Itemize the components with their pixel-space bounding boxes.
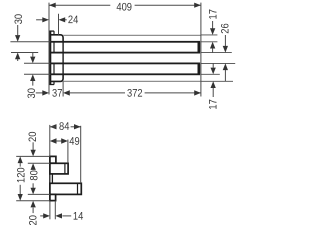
svg-text:20: 20 [27,132,39,142]
arrow 409 left [49,3,56,8]
dimension 24 tail + arrows [36,19,42,21]
arm 1 bar cross line [64,163,66,174]
svg-text:24: 24 [68,14,78,26]
dim 49 arrows [50,138,57,143]
arm 2 stub (side view) [50,183,81,194]
svg-text:17: 17 [207,9,219,19]
svg-text:84: 84 [59,121,69,133]
dimension 409 extension line left [48,3,50,95]
svg-text:17: 17 [207,99,219,109]
svg-text:30: 30 [13,14,25,24]
arrow 409 right [194,3,201,8]
wall plate (side view) [50,156,53,200]
dim 372 left arrow [63,90,70,95]
svg-text:26: 26 [219,23,231,33]
svg-text:20: 20 [27,215,39,225]
hub block upper (side view) [50,156,56,163]
svg-text:372: 372 [127,88,143,100]
dimension 24 extension line [58,14,60,35]
towel bar 1 end cap [198,42,200,53]
towel bar 1 (top view) [50,42,199,53]
arm 1 stub (side view) [50,163,68,174]
svg-text:49: 49 [69,136,79,148]
dim 37: extension line under hub [62,81,64,96]
hub right edge vertical crossing bars [62,42,64,75]
svg-text:120: 120 [15,167,27,183]
left horizontal extension lines (side view) [16,155,50,157]
grey silhouette line lower [63,80,201,82]
dim 120: arrows + rotated label [18,156,23,163]
dim 372 right arrow [194,90,201,95]
left dim 30 upper: line + arrows [17,25,19,35]
arm 2 bar cross line [77,183,79,194]
post edge visible inside bar 1 [53,42,55,53]
dim 14 extension lines [49,201,51,220]
pivot hub upper (top view, rounded top-right) [50,35,63,42]
extension lines left lower [24,62,50,64]
dim 84 extension lines [49,125,51,156]
pivot hub lower (top view, rounded bottom-right) [50,74,63,81]
svg-text:14: 14 [73,211,83,223]
dimension line 409 [49,4,110,6]
right chain shelves [201,34,218,36]
grey silhouette line upper [63,34,201,36]
svg-text:80: 80 [28,170,40,180]
towel bar 2 end cap [198,63,200,74]
dim 49 extension line [67,140,69,164]
svg-text:37: 37 [52,88,62,100]
towel bar 2 (top view) [50,63,199,74]
dim 20 bottom: arrows + rotated label [31,201,36,208]
right dim 17 bottom: arrows + text [212,63,214,67]
dim 37 arrows [36,92,43,94]
extension lines left upper [10,41,50,43]
dim 14 arrows + label [40,215,43,217]
hub block lower (side view) [50,194,56,200]
svg-text:409: 409 [116,1,132,13]
wall plate (top view): left edge, top/bottom caps, short right-edge bits [49,31,51,85]
left dim 30 lower: arrows [32,53,34,57]
post edge visible inside bar 2 [53,63,55,74]
extension line right (shared 409/372) [200,3,202,97]
dim 84 line + arrows [50,124,57,129]
